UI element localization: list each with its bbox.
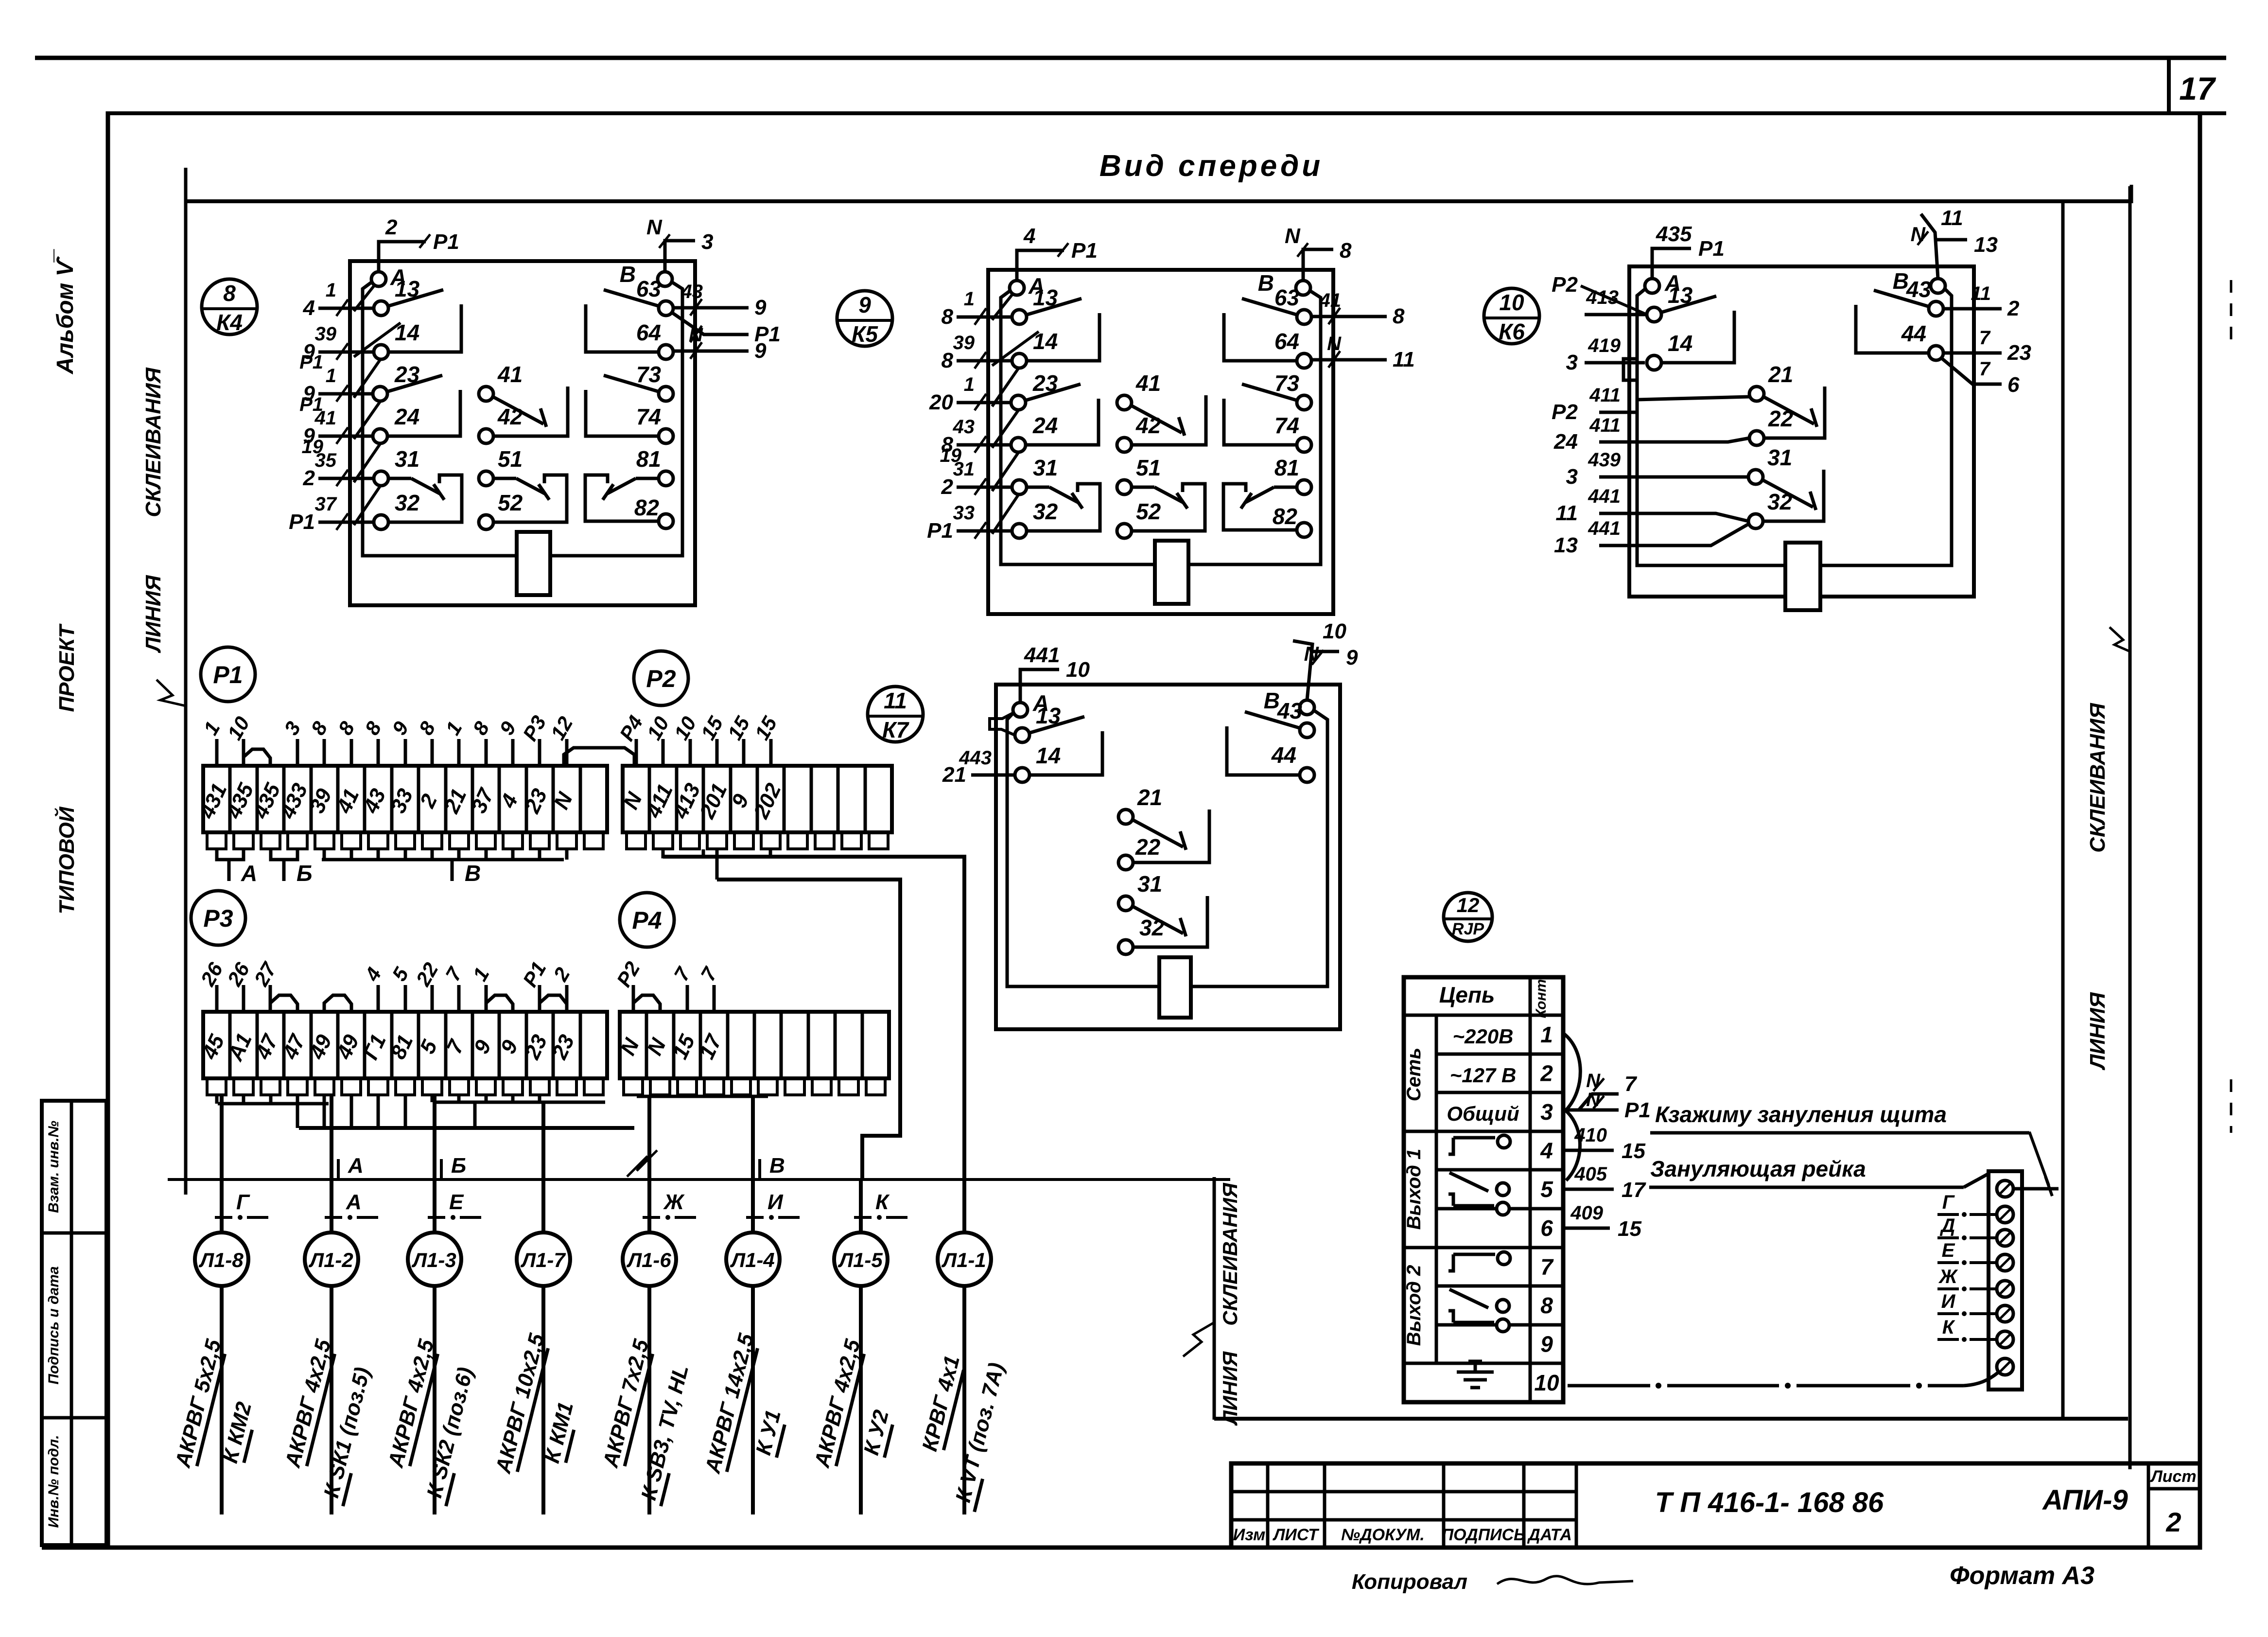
svg-text:15: 15 [750, 712, 781, 744]
svg-text:N: N [1285, 224, 1301, 248]
relay К5 contact 13-14 [1026, 299, 1082, 315]
svg-text:9: 9 [858, 292, 871, 317]
relay К4 contact 31-32 [388, 477, 411, 480]
svg-text:1: 1 [326, 280, 336, 301]
cable Л1-1 circle [938, 1232, 991, 1286]
svg-text:64: 64 [636, 320, 661, 345]
strip Р1 wire 9 stub [511, 739, 515, 766]
svg-text:~127 В: ~127 В [1450, 1064, 1517, 1087]
svg-text:10: 10 [1066, 658, 1090, 682]
svg-text:СКЛЕИВАНИЯ: СКЛЕИВАНИЯ [2086, 703, 2110, 852]
svg-text:Инв.№ подл.: Инв.№ подл. [46, 1435, 62, 1528]
svg-text:К У1: К У1 [751, 1408, 785, 1458]
svg-text:К5: К5 [852, 321, 878, 347]
glue line right arrow [2110, 627, 2130, 651]
connector XP pin5 wire 405 [1563, 1188, 1614, 1191]
ground bar screw 1 [1997, 1180, 2013, 1197]
svg-text:21: 21 [1137, 785, 1162, 810]
ground bar screw 4 [1997, 1254, 2013, 1271]
svg-text:32: 32 [1033, 499, 1058, 524]
svg-text:1: 1 [199, 718, 224, 739]
svg-text:N: N [646, 215, 663, 239]
svg-text:13: 13 [1974, 233, 1998, 257]
svg-text:43: 43 [681, 281, 703, 302]
svg-text:1: 1 [326, 365, 336, 387]
svg-text:Л1-1: Л1-1 [941, 1249, 986, 1271]
svg-text:Л1-5: Л1-5 [837, 1249, 883, 1271]
svg-text:8: 8 [414, 717, 440, 739]
inner drawing top border [187, 199, 2131, 203]
svg-text:N: N [1304, 642, 1320, 665]
relay К5 left lead 5 wire 31 [957, 486, 1012, 489]
svg-text:39: 39 [953, 332, 975, 353]
strip Р2 wire 15 stub [769, 739, 773, 766]
ground bar screw 3 [1997, 1230, 2013, 1246]
relay К4 contact 13-14 [387, 290, 443, 306]
cable Л1-5 circle [834, 1232, 888, 1286]
relay K7 lead 14 [971, 774, 1015, 777]
svg-text:419: 419 [1588, 335, 1621, 356]
svg-text:СКЛЕИВАНИЯ: СКЛЕИВАНИЯ [141, 367, 165, 517]
svg-text:Л1-7: Л1-7 [520, 1249, 566, 1271]
svg-text:13: 13 [1668, 282, 1693, 308]
svg-text:9: 9 [495, 717, 521, 739]
cable Л1-7 line [541, 1286, 545, 1514]
cable harness bus line [168, 1178, 1230, 1181]
svg-text:Взам. инв.№: Взам. инв.№ [46, 1121, 62, 1213]
svg-text:2: 2 [303, 466, 315, 490]
connector XP ground symbol [1457, 1371, 1494, 1374]
svg-text:9: 9 [754, 339, 767, 363]
svg-text:20: 20 [929, 390, 953, 414]
relay К5 right lead N [1312, 358, 1387, 362]
svg-text:Р4: Р4 [632, 907, 662, 934]
svg-text:7: 7 [696, 963, 722, 985]
cable Л1-5 drop wire [859, 1180, 863, 1232]
strip Р1 wire 3 stub [296, 739, 299, 766]
svg-text:Выход 1: Выход 1 [1403, 1149, 1425, 1230]
cable Л1-7 label dest [540, 1400, 580, 1466]
cable Л1-2 label type [280, 1337, 337, 1471]
svg-text:10: 10 [642, 713, 673, 744]
svg-text:17: 17 [2179, 70, 2216, 106]
svg-text:В: В [769, 1154, 785, 1178]
relay К5 contact 63-64 [1242, 299, 1298, 315]
svg-text:24: 24 [1553, 430, 1578, 454]
svg-text:33: 33 [953, 502, 975, 524]
cable Л1-8 drop wire [220, 1095, 224, 1232]
relay К4 contact 73-74 [604, 375, 660, 392]
cable Л1-5 label dest [859, 1408, 895, 1458]
relay K6 contact 43-44 [1874, 290, 1930, 307]
svg-text:37: 37 [315, 493, 337, 515]
strip Р4 jumper loop [633, 995, 660, 1012]
relay K7 coil [1159, 957, 1191, 1018]
svg-text:КРВГ 4х1: КРВГ 4х1 [918, 1353, 964, 1454]
strip Р3 wire 4 stub [377, 985, 380, 1012]
cable Л1-5 line [859, 1286, 863, 1514]
relay К4 right lead [673, 313, 749, 334]
relay К5 contact 41-42 [1131, 405, 1182, 433]
relay K6 lead 43 [1943, 307, 2002, 311]
svg-text:Д: Д [1940, 1215, 1955, 1236]
cable Л1-4 label dest [751, 1408, 787, 1458]
relay К4 lead cross wires [354, 285, 375, 311]
relay К5 terminal B lead [1303, 249, 1333, 281]
svg-text:74: 74 [636, 404, 661, 429]
svg-text:441: 441 [1024, 643, 1060, 667]
svg-text:Общий: Общий [1447, 1102, 1519, 1125]
harness P2 bracket 201-202 [717, 849, 770, 857]
relay К5 terminal B [1296, 281, 1310, 295]
cable Л1-2 circle [305, 1232, 358, 1286]
svg-text:Б: Б [297, 861, 313, 886]
cable Л1-4 label type [700, 1331, 760, 1477]
relay K7 terminal B lead [1293, 641, 1312, 700]
strip Р1 wire 1 stub [457, 739, 461, 766]
relay К5 terminal A lead [1017, 250, 1064, 281]
relay К4 left lead 1 wire 1 [318, 307, 374, 310]
relay К4 left lead 6 wire 37 [318, 521, 374, 524]
svg-text:11: 11 [884, 688, 907, 713]
strip Р1 wire 8 stub [377, 739, 380, 766]
strip Р3 jumper loop [324, 995, 351, 1012]
svg-text:К6: К6 [1499, 319, 1525, 344]
connector XP pin1 curve [1563, 1033, 1580, 1110]
relay К4 left lead 3 wire 1 [318, 392, 374, 396]
cable Л1-3 line [433, 1286, 436, 1514]
cable Л1-5 label type [810, 1337, 867, 1471]
ground bar screw 2 [1997, 1206, 2013, 1223]
svg-text:N: N [1586, 1070, 1601, 1091]
relay К5 terminal A [1010, 281, 1024, 295]
svg-text:23: 23 [2007, 341, 2031, 365]
harness bus connector [473, 1102, 477, 1128]
relay K6 lead 31 [1599, 475, 1748, 479]
relay К4 right lead N [674, 350, 749, 353]
cable Л1-4 line [751, 1286, 755, 1514]
svg-text:2: 2 [941, 475, 954, 499]
svg-text:Л1-8: Л1-8 [198, 1249, 244, 1271]
relay К5 right lead 41 [1312, 315, 1387, 318]
svg-text:Е: Е [449, 1190, 464, 1214]
svg-text:Р1: Р1 [299, 352, 323, 373]
relay К4 terminal A [371, 272, 386, 286]
svg-text:26: 26 [196, 958, 227, 990]
strip Р1 wire 8 stub [323, 739, 326, 766]
relay К4 left lead 2 wire 39 [318, 351, 374, 354]
relay K7 contact 43-44 [1245, 712, 1301, 728]
harness P2 bus wire to L1-1 [663, 857, 964, 1179]
relay K7 terminal A lead [1020, 669, 1059, 703]
svg-text:ЛИНИЯ: ЛИНИЯ [141, 575, 165, 653]
relay К5 contact 81-82 [1274, 486, 1297, 489]
cable Л1-7 label type [491, 1331, 551, 1477]
svg-text:№ДОКУМ.: №ДОКУМ. [1341, 1526, 1425, 1544]
svg-text:11: 11 [1555, 501, 1578, 525]
page left border [106, 111, 110, 1549]
strip Р4 wire 7 stub [713, 985, 716, 1012]
svg-text:41: 41 [1135, 370, 1161, 396]
relay К4 contact 63-64 [604, 290, 660, 306]
svg-text:8: 8 [942, 305, 954, 329]
svg-text:14: 14 [1668, 331, 1692, 356]
svg-text:Г: Г [236, 1190, 250, 1214]
svg-text:26: 26 [223, 958, 254, 990]
svg-text:52: 52 [1136, 499, 1161, 524]
terminal strip Р4 body [620, 1012, 889, 1078]
svg-text:74: 74 [1274, 413, 1299, 438]
svg-text:Изм: Изм [1233, 1526, 1266, 1544]
relay K7 contact 21-22 [1133, 820, 1183, 847]
svg-text:413: 413 [668, 780, 705, 823]
relay K6 lead 32b [1599, 524, 1748, 546]
svg-text:22: 22 [411, 959, 443, 990]
relay K6 lead 13 [1585, 313, 1647, 317]
svg-text:Л1-6: Л1-6 [626, 1249, 671, 1271]
cable Л1-8 label dest [218, 1399, 258, 1466]
svg-text:Ж: Ж [1938, 1266, 1958, 1287]
svg-text:44: 44 [1271, 742, 1296, 768]
relay К4 contact 81-82 [636, 477, 659, 480]
page bottom border [42, 1546, 2200, 1550]
relay K6 contact 13-14 [1660, 296, 1716, 313]
svg-text:22: 22 [1768, 406, 1794, 431]
harness P2 bracket 411-413 [663, 849, 703, 857]
strip Р1 wire 9 stub [404, 739, 407, 766]
terminal strip Р2 body [623, 766, 892, 832]
svg-text:АКРВГ 5х2,5: АКРВГ 5х2,5 [171, 1337, 226, 1470]
svg-text:82: 82 [1273, 504, 1298, 529]
relay K6 lead 21 [1599, 397, 1749, 412]
relay К4 designator circle [202, 279, 257, 334]
svg-text:12: 12 [546, 713, 577, 744]
relay К4 contact 51-52 [493, 477, 516, 480]
svg-text:8: 8 [942, 349, 954, 372]
harness P1 group B [271, 849, 297, 860]
title block columns [1266, 1463, 1270, 1548]
svg-text:7: 7 [669, 963, 695, 985]
title block rows [1231, 1490, 1576, 1494]
svg-text:31: 31 [1033, 455, 1058, 480]
svg-text:13: 13 [395, 276, 420, 301]
relay К5 left lead 1 wire 1 [957, 316, 1012, 319]
glue line left arrow [157, 680, 186, 706]
connector XP group column [1435, 1015, 1438, 1363]
svg-text:10: 10 [223, 713, 254, 744]
relay K6 coil [1785, 543, 1820, 610]
ground bar screw1 wire [2013, 1187, 2059, 1191]
svg-text:24: 24 [394, 404, 419, 429]
svg-text:3: 3 [1566, 351, 1578, 374]
strip Р1 wire Р3 stub [538, 739, 541, 766]
relay K7 terminal B [1300, 700, 1314, 715]
connector XP row lines [1436, 1053, 1563, 1056]
svg-text:ЛИНИЯ: ЛИНИЯ [1219, 1351, 1241, 1426]
signature [1497, 1576, 1633, 1584]
svg-text:Конт.: Конт. [1533, 975, 1549, 1018]
inner drawing right border [2061, 203, 2065, 1419]
cable Л1-6 label type [598, 1337, 655, 1471]
svg-text:8: 8 [1393, 304, 1405, 328]
svg-text:А: А [241, 861, 257, 886]
terminal strip Р3 designator circle [191, 891, 245, 945]
relay K7 contact 31-32 [1133, 906, 1183, 933]
svg-text:7: 7 [1624, 1072, 1638, 1096]
phase label В above bus [758, 1159, 761, 1179]
connector XP pin6 wire 409 [1563, 1227, 1610, 1230]
svg-text:6: 6 [2007, 373, 2020, 397]
relay K6 rail jog [1623, 359, 1637, 380]
lugs under strip P2 [627, 832, 646, 849]
svg-text:8: 8 [333, 717, 359, 739]
strip Р1 wire 8 stub [431, 739, 434, 766]
terminal strip Р1 designator circle [201, 647, 255, 702]
svg-text:В: В [465, 861, 481, 886]
relay K6 contact 31-32 [1762, 480, 1813, 507]
svg-text:42: 42 [1135, 413, 1161, 438]
title block outline [1231, 1463, 2200, 1548]
svg-text:Р1: Р1 [433, 230, 459, 254]
glue line right vertical [2128, 186, 2132, 1469]
svg-text:Ж: Ж [663, 1190, 685, 1214]
svg-text:17: 17 [1622, 1178, 1646, 1202]
svg-text:10: 10 [1323, 619, 1346, 643]
svg-text:4: 4 [1023, 224, 1035, 248]
svg-text:411: 411 [1589, 385, 1621, 406]
strip Р4 wire Р2 stub [632, 985, 635, 1012]
cable Л1-8 line [220, 1286, 224, 1514]
svg-text:1: 1 [964, 374, 975, 395]
svg-text:73: 73 [1274, 370, 1300, 396]
svg-text:А: А [346, 1190, 362, 1214]
relay К5 box [988, 270, 1333, 614]
svg-text:2: 2 [385, 215, 398, 239]
svg-text:К: К [1942, 1317, 1955, 1338]
svg-text:15: 15 [1618, 1217, 1641, 1241]
strip Р3 wire 1 stub [485, 985, 488, 1012]
svg-text:Р4: Р4 [615, 712, 647, 745]
connector XP pin3-5 curve [1566, 1111, 1580, 1180]
svg-text:Р1: Р1 [1624, 1098, 1651, 1122]
svg-text:435: 435 [1656, 222, 1692, 246]
svg-text:В: В [620, 262, 636, 287]
svg-text:73: 73 [636, 362, 662, 387]
strip Р3 wire Р1 stub [538, 985, 541, 1012]
svg-text:Р3: Р3 [518, 712, 550, 745]
svg-text:ПРОЕКТ: ПРОЕКТ [55, 623, 79, 712]
relay K7 box [996, 685, 1340, 1029]
cable Л1-6 line [647, 1286, 651, 1514]
svg-text:10: 10 [1534, 1370, 1559, 1395]
svg-text:Кзажиму зануления щита: Кзажиму зануления щита [1655, 1102, 1947, 1127]
strip Р3 jumper loop [540, 995, 567, 1012]
svg-text:32: 32 [395, 490, 420, 515]
relay K6 terminal B lead [1921, 214, 1938, 279]
svg-text:Р1: Р1 [289, 510, 315, 534]
cable Л1-3 drop wire [433, 1095, 436, 1232]
svg-text:Е: Е [1942, 1240, 1955, 1261]
stamp boxes left column [42, 1101, 106, 1545]
title block list box [2147, 1463, 2150, 1548]
svg-text:7: 7 [441, 963, 467, 985]
strip Р1 wire 12 stub [565, 739, 569, 766]
svg-text:7: 7 [1979, 327, 1991, 349]
cable Л1-6 circle [623, 1232, 676, 1286]
strip Р3 wire 7 stub [457, 985, 461, 1012]
svg-text:13: 13 [1036, 703, 1061, 728]
svg-text:9: 9 [754, 296, 767, 319]
ground bar screw 5 [1997, 1281, 2013, 1297]
relay К5 contact 31-32 [1026, 486, 1049, 489]
svg-text:АПИ-9: АПИ-9 [2041, 1484, 2128, 1516]
cable Л1-2 label dest [318, 1365, 377, 1506]
relay K6 lead 14 [1585, 361, 1645, 365]
svg-text:31: 31 [1767, 445, 1792, 470]
svg-text:8: 8 [306, 717, 332, 739]
strip Р3 wire 26 stub [215, 985, 219, 1012]
connector XP designator circle [1444, 893, 1492, 941]
cable Л1-3 label dest [421, 1365, 480, 1506]
svg-text:51: 51 [1136, 455, 1161, 480]
strip Р2 wire 15 stub [742, 739, 746, 766]
svg-text:Р1: Р1 [927, 519, 953, 543]
relay К4 box [350, 261, 695, 605]
relay К4 terminal B [658, 272, 672, 286]
svg-text:44: 44 [1901, 321, 1926, 346]
connector XP output1 contact [1448, 1138, 1453, 1154]
relay K7 internal rails [1007, 713, 1159, 986]
harness P3 bracket cells 1-3 [218, 1102, 329, 1106]
svg-text:9: 9 [387, 717, 413, 739]
relay K7 designator circle [868, 686, 923, 742]
svg-text:ЛИСТ: ЛИСТ [1272, 1526, 1320, 1544]
inner top border end tick [2130, 185, 2133, 203]
ground bar screw 6 [1997, 1305, 2013, 1322]
svg-text:~220В: ~220В [1453, 1025, 1514, 1048]
cable Л1-6 label dest [636, 1362, 695, 1506]
harness P1 group A [217, 849, 244, 860]
svg-text:Р2: Р2 [612, 958, 644, 991]
harness P3 lower bus [299, 1126, 634, 1130]
svg-text:СКЛЕИВАНИЯ: СКЛЕИВАНИЯ [1219, 1182, 1241, 1326]
svg-text:201: 201 [695, 780, 732, 823]
svg-text:Р1: Р1 [1071, 239, 1098, 263]
strip Р3 wire 2 stub [565, 985, 569, 1012]
svg-text:1: 1 [441, 718, 466, 739]
relay К4 contact 23-24 [386, 375, 442, 392]
harness P4 bracket [637, 1095, 768, 1098]
svg-text:8: 8 [1340, 239, 1352, 263]
svg-text:27: 27 [249, 958, 281, 990]
svg-text:9: 9 [1346, 646, 1358, 669]
cable Л1-2 line [330, 1286, 333, 1514]
cable Л1-3 label type [384, 1337, 440, 1471]
svg-text:64: 64 [1274, 329, 1299, 354]
sheet second border line [106, 111, 2226, 115]
ground bar strip [1989, 1171, 2022, 1390]
svg-text:7: 7 [1979, 358, 1991, 380]
svg-text:Подпись и дата: Подпись и дата [46, 1266, 62, 1384]
svg-text:433: 433 [276, 780, 313, 823]
strip Р2 wire 10 stub [662, 739, 665, 766]
relay K6 contact 21-22 [1763, 397, 1814, 424]
svg-text:15: 15 [696, 712, 727, 744]
svg-text:3: 3 [279, 718, 305, 739]
phase label А above bus [337, 1159, 340, 1179]
connector XP header [1404, 1014, 1563, 1017]
svg-text:Выход 2: Выход 2 [1403, 1265, 1425, 1346]
